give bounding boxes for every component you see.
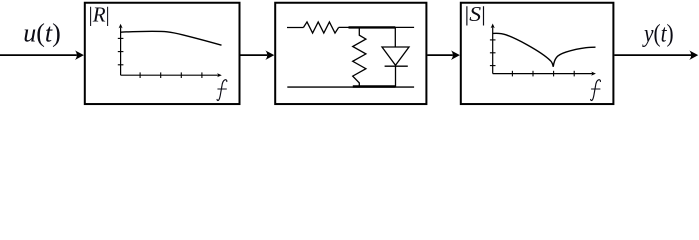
wire bottom rail	[287, 86, 414, 88]
label |S|	[465, 2, 486, 25]
block 3 box (|S| filter)	[461, 3, 614, 104]
wire top rail thick overlap segment	[349, 26, 396, 28]
plot1 |R| response curve	[121, 31, 222, 45]
wire bottom rail thick overlap segment	[353, 85, 396, 88]
plot1 y-axis	[120, 28, 122, 76]
plot3 |S| notch response curve	[493, 33, 596, 67]
svg-text:y(t): y(t)	[642, 20, 674, 48]
plot3 x ticks	[512, 71, 574, 77]
plot3 y ticks	[490, 40, 496, 66]
resistor R1 horizontal zigzag	[303, 22, 338, 33]
plot3 f axis label	[591, 80, 601, 101]
wire top middle and right	[339, 26, 415, 28]
plot1 y ticks	[118, 38, 124, 64]
svg-text:u(t): u(t)	[23, 19, 61, 48]
block 2 box (diode circuit)	[275, 3, 426, 104]
diode D1 cathode bar	[385, 65, 408, 67]
plot3 x-axis	[493, 73, 592, 75]
wire arrow block1 to block2	[240, 54, 267, 56]
plot3 y-axis	[492, 27, 494, 73]
wire output arrow	[614, 54, 691, 56]
node y(t) output label	[642, 20, 674, 48]
wire top-left lead	[287, 27, 303, 29]
wire arrow block2 to block3	[427, 54, 453, 56]
resistor R2 vertical: lead and zigzag	[353, 28, 366, 88]
plot1 f axis label	[217, 80, 227, 101]
diode D1 anode lead	[394, 28, 396, 48]
svg-text:|R|: |R|	[89, 2, 110, 26]
plot1 x ticks	[140, 72, 202, 78]
block 1 box (|R| filter)	[85, 3, 240, 104]
svg-text:|S|: |S|	[465, 2, 486, 25]
plot1 x-axis	[121, 74, 218, 76]
diode D1 triangle	[382, 47, 409, 65]
wire input arrow	[0, 54, 77, 56]
diode D1 cathode lead	[395, 66, 397, 87]
